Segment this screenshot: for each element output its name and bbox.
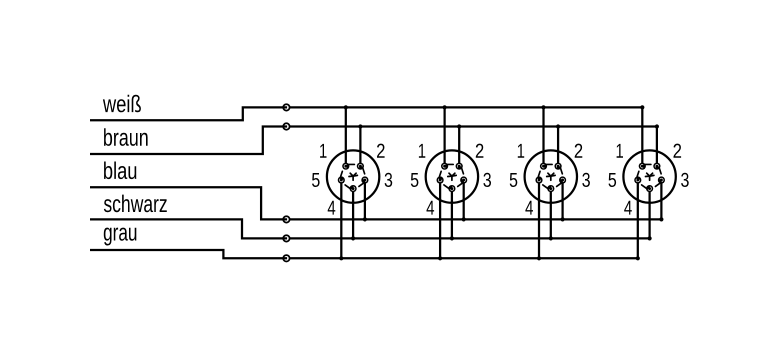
connector X1 housing bbox=[327, 150, 379, 202]
pin label X4-3 bbox=[681, 173, 689, 187]
pin label X2-3 bbox=[483, 173, 491, 187]
pin label X3-3 bbox=[582, 173, 590, 187]
wire X4 pin 4 to schwarz bbox=[648, 189, 650, 239]
pin label X1-4 bbox=[328, 201, 336, 215]
wire schwarz lead bbox=[90, 219, 287, 238]
terminal braun bbox=[283, 123, 289, 129]
junction braun/X3 bbox=[556, 124, 560, 128]
pin label X1-2 bbox=[377, 144, 385, 158]
pin label X4-5 bbox=[609, 173, 617, 187]
junction braun/X4 bbox=[655, 124, 659, 128]
wire X3 pin 2 to braun bbox=[557, 127, 559, 167]
pin X1-2 bbox=[357, 163, 365, 174]
label blau bbox=[104, 162, 136, 180]
pin label X1-5 bbox=[312, 173, 320, 187]
wire X1 pin 4 to schwarz bbox=[352, 189, 354, 239]
pin X3-1 bbox=[540, 163, 552, 170]
label braun bbox=[104, 128, 148, 146]
wire X3 pin 1 to weiss bbox=[542, 107, 544, 166]
junction blau/X3 bbox=[560, 217, 564, 221]
pin X1-5 bbox=[338, 171, 345, 183]
wire X4 pin 5 to grau bbox=[637, 180, 639, 258]
wire blau lead bbox=[90, 187, 287, 219]
pin label X3-5 bbox=[510, 173, 518, 187]
junction weiss/X3 bbox=[541, 105, 545, 109]
pin X2-5 bbox=[437, 171, 444, 183]
pin X1-3 bbox=[359, 176, 369, 186]
wire weiss bus bbox=[289, 106, 642, 108]
pin X4-4 bbox=[642, 185, 654, 192]
junction braun/X1 bbox=[358, 124, 362, 128]
wire X1 pin 3 to blau bbox=[364, 180, 366, 219]
wire X1 pin 1 to weiss bbox=[345, 107, 347, 166]
wire braun lead bbox=[90, 127, 287, 155]
wire X2 pin 3 to blau bbox=[463, 180, 465, 219]
wire X4 pin 3 to blau bbox=[660, 180, 662, 219]
pin label X4-2 bbox=[674, 144, 682, 158]
wire grau lead bbox=[90, 250, 287, 258]
junction braun/X2 bbox=[457, 124, 461, 128]
connector X3 housing bbox=[525, 150, 577, 202]
terminal weiss bbox=[283, 104, 289, 110]
wire X3 pin 3 to blau bbox=[561, 180, 563, 219]
wire braun bus bbox=[289, 125, 657, 127]
pin X3-2 bbox=[554, 163, 562, 174]
pin X2-1 bbox=[441, 163, 453, 170]
pin label X2-1 bbox=[419, 144, 425, 158]
pin label X3-4 bbox=[525, 201, 533, 215]
pin X4-1 bbox=[639, 163, 651, 170]
pin label X2-5 bbox=[411, 173, 419, 187]
pin X4-3 bbox=[655, 176, 665, 186]
junction blau/X4 bbox=[659, 217, 663, 221]
wire blau bus bbox=[289, 218, 661, 220]
wire X3 pin 5 to grau bbox=[538, 180, 540, 258]
junction schwarz/X1 bbox=[351, 236, 355, 240]
wire X2 pin 5 to grau bbox=[439, 180, 441, 258]
pin label X3-1 bbox=[518, 144, 524, 158]
pin label X2-4 bbox=[427, 201, 435, 215]
pin X2-3 bbox=[458, 176, 468, 186]
pin label X1-3 bbox=[385, 173, 393, 187]
pin label X4-1 bbox=[617, 144, 623, 158]
pin X1-1 bbox=[342, 163, 354, 170]
pin X4-5 bbox=[634, 171, 641, 183]
junction schwarz/X3 bbox=[549, 236, 553, 240]
junction schwarz/X4 bbox=[648, 236, 652, 240]
wire X2 pin 4 to schwarz bbox=[451, 189, 453, 239]
wire X4 pin 2 to braun bbox=[656, 127, 658, 167]
terminal schwarz bbox=[283, 235, 289, 241]
polarization mark X3 bbox=[547, 173, 555, 180]
polarization mark X4 bbox=[646, 173, 654, 180]
polarization mark X2 bbox=[448, 173, 456, 180]
label weiss bbox=[103, 95, 141, 113]
pin X2-4 bbox=[444, 185, 456, 192]
junction blau/X2 bbox=[462, 217, 466, 221]
wire schwarz bus bbox=[289, 237, 649, 239]
junction grau/X4 bbox=[636, 256, 640, 260]
pin X3-4 bbox=[543, 185, 555, 192]
pin label X4-4 bbox=[624, 201, 632, 215]
wire weiss lead bbox=[90, 107, 287, 120]
junction blau/X1 bbox=[363, 217, 367, 221]
connector X4 housing bbox=[623, 150, 675, 202]
wire X1 pin 5 to grau bbox=[340, 180, 342, 258]
terminal grau bbox=[283, 255, 289, 261]
junction weiss/X4 bbox=[640, 105, 644, 109]
terminal blau bbox=[283, 216, 289, 222]
wire X2 pin 2 to braun bbox=[458, 127, 460, 167]
pin X2-2 bbox=[456, 163, 464, 174]
junction weiss/X1 bbox=[344, 105, 348, 109]
junction grau/X3 bbox=[537, 256, 541, 260]
pin X4-2 bbox=[653, 163, 661, 174]
junction weiss/X2 bbox=[443, 105, 447, 109]
junction grau/X2 bbox=[438, 256, 442, 260]
connector X2 housing bbox=[426, 150, 478, 202]
wire X4 pin 1 to weiss bbox=[641, 107, 643, 166]
wire X3 pin 4 to schwarz bbox=[550, 189, 552, 239]
pin X1-4 bbox=[345, 185, 357, 192]
pin label X1-1 bbox=[320, 144, 326, 158]
label schwarz bbox=[104, 195, 167, 213]
polarization mark X1 bbox=[349, 173, 357, 180]
junction grau/X1 bbox=[339, 256, 343, 260]
junction schwarz/X2 bbox=[450, 236, 454, 240]
wire X2 pin 1 to weiss bbox=[443, 107, 445, 166]
pin label X3-2 bbox=[575, 144, 583, 158]
pin X3-5 bbox=[535, 171, 542, 183]
pin label X2-2 bbox=[476, 144, 484, 158]
wire grau bus bbox=[289, 257, 638, 259]
pin X3-3 bbox=[557, 176, 567, 186]
label grau bbox=[104, 228, 137, 246]
wire X1 pin 2 to braun bbox=[359, 127, 361, 167]
